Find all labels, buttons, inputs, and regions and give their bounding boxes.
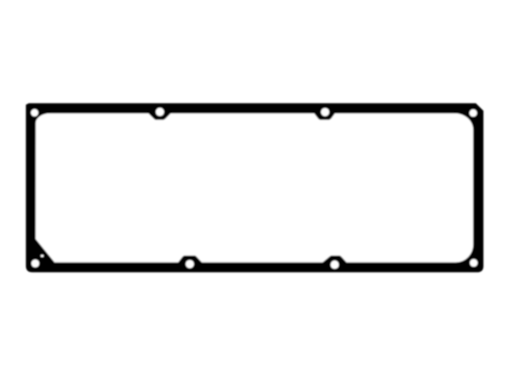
bolt hole bottom-right [470,259,478,267]
bolt hole top-right [469,109,477,117]
bolt hole top B [321,108,329,116]
bolt hole top A [156,108,164,116]
bottom bolt tab 2 [322,256,347,263]
bottom bolt tab 1 [178,256,203,263]
highlight speck bottom-left [41,255,44,257]
gasket inner window [36,113,474,262]
top bolt tab 2 [314,113,335,120]
bolt hole bottom-left [31,259,39,267]
bolt hole bottom A [186,260,194,268]
bolt hole top-left [31,109,38,116]
gasket body outer outline [26,103,484,272]
bolt hole bottom B [331,261,339,269]
top bolt tab 1 [148,113,171,120]
